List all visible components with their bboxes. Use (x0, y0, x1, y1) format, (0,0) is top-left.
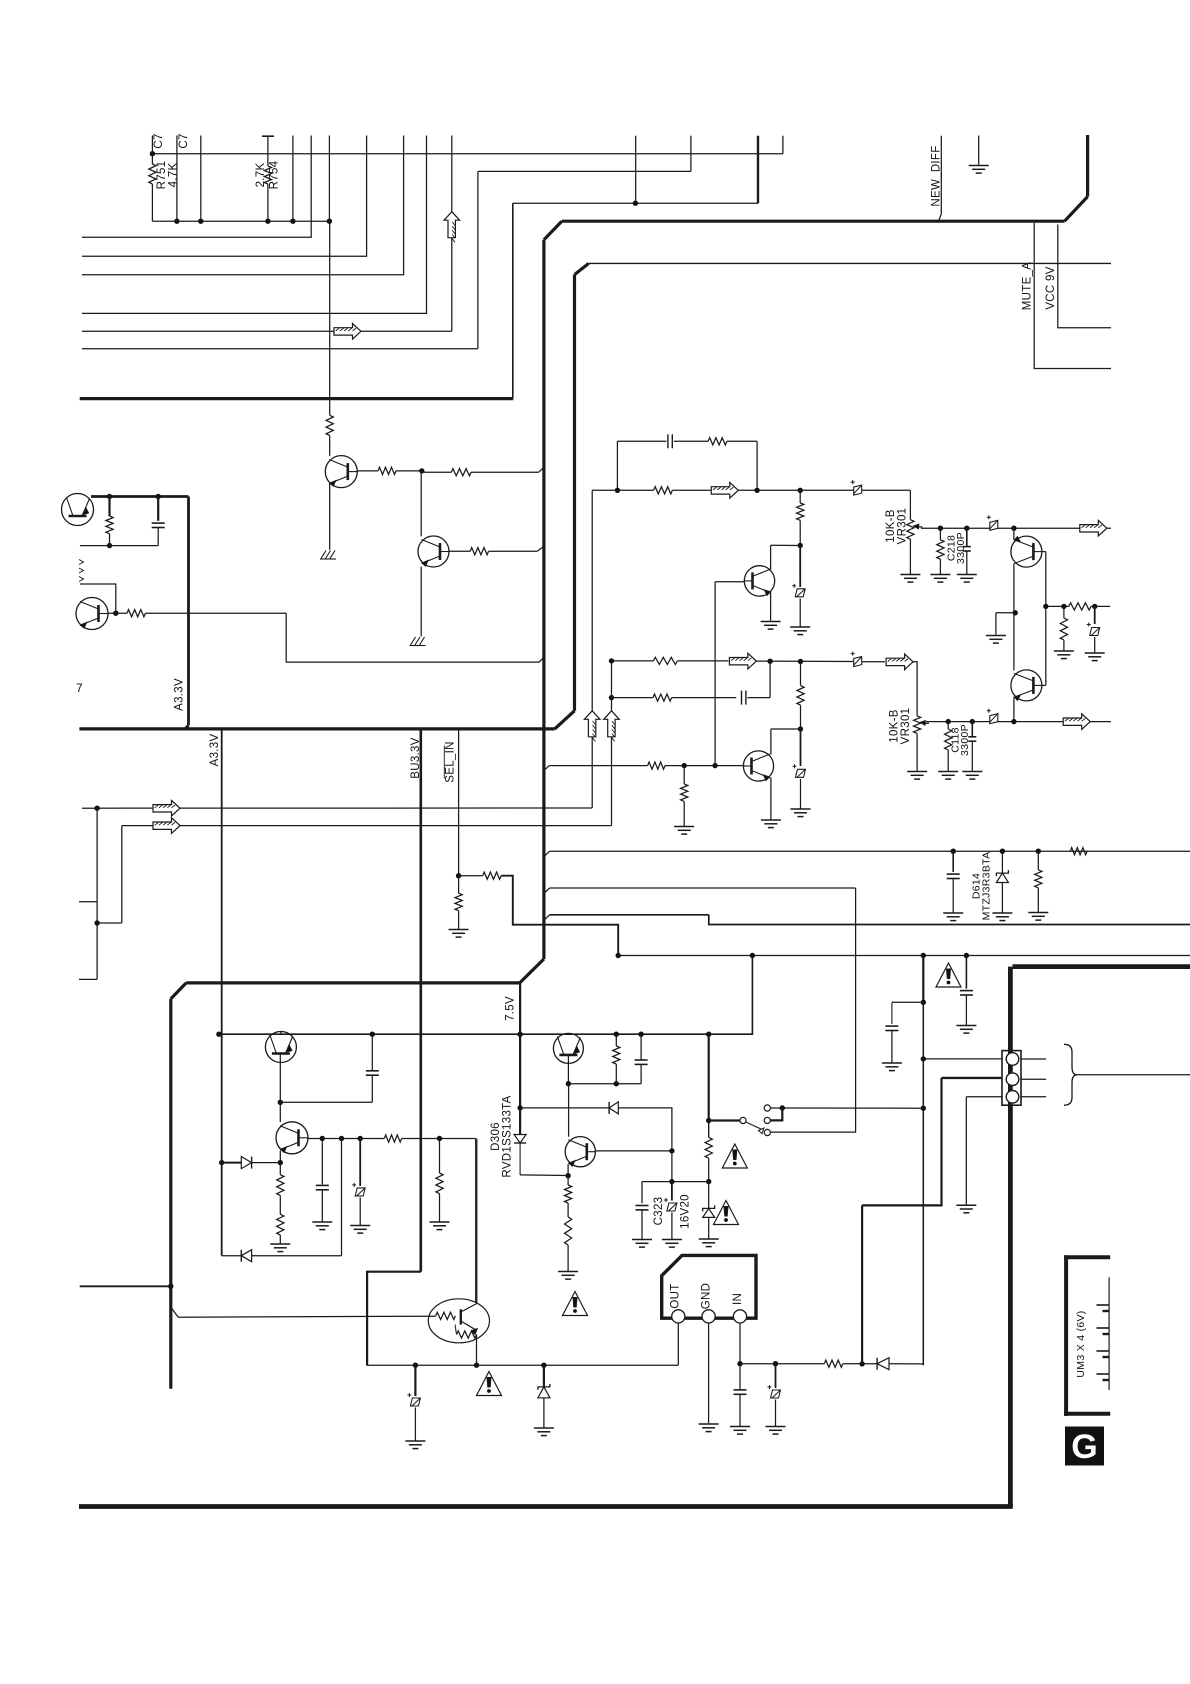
resistor Q2 base (470, 548, 488, 555)
regulator pin IN (733, 1310, 746, 1323)
svg-text:D306: D306 (490, 1122, 502, 1151)
A3.3V vertical continues (221, 1034, 223, 1256)
wire Q1 base y=470.9 (357, 470, 378, 472)
node dots bottom line (413, 1363, 418, 1368)
GND pin wire (708, 1323, 710, 1423)
node dot x=109.5 y=545.6 (107, 543, 112, 548)
output arrow upper right (1080, 520, 1107, 536)
node dots wiper lower (946, 719, 951, 724)
SEL_IN resistor to ground (458, 876, 460, 894)
wire y=1175.2 to Q6b emitter (520, 1174, 568, 1177)
resistor Q1 base (378, 467, 396, 474)
connector pin 3 (1006, 1091, 1019, 1104)
diode from A3.3V to emitter (219, 1160, 224, 1165)
wire from brace y=1074.8 (1077, 1074, 1190, 1076)
wire y=1286.3 stub (80, 1285, 171, 1287)
diode on IN line (876, 1358, 878, 1370)
thick vertical x=170.8 bottom left (169, 999, 172, 1389)
line y=825.6 (122, 825, 612, 827)
svg-text:R754: R754 (269, 160, 281, 189)
opto transistor bar (460, 1309, 462, 1324)
electrolytic x=415.4 (414, 1365, 416, 1396)
transistor driver upper (744, 566, 774, 596)
electrolytic to ground x=1094.7 (1094, 606, 1096, 624)
IN line y=1363.7 (740, 1363, 824, 1365)
wire y=1102.3 (280, 1101, 372, 1103)
select line y=955.5 (618, 955, 1190, 957)
capacitor 3300P leg upper (966, 528, 968, 546)
lower driver emitter to ground (770, 778, 772, 820)
resistor Q4 base (127, 610, 145, 617)
capacitor x=158.2 (157, 497, 159, 521)
switch pole wire (709, 1119, 740, 1121)
opto collector (461, 1304, 477, 1313)
resistor x=616.3 (615, 1034, 617, 1046)
svg-text:R751: R751 (156, 161, 168, 190)
svg-text:MTZJ3R3BTA: MTZJ3R3BTA (981, 852, 993, 921)
transistor Q4 partial (76, 598, 108, 630)
node dots on junction line (174, 219, 179, 224)
resistor on y=851.2 rail (1070, 848, 1087, 855)
warning triangle near 7.5V area (936, 963, 961, 987)
wire collector x=329.7 from junction (329, 221, 331, 415)
svg-text:16V20: 16V20 (680, 1194, 692, 1229)
left stub y=901.8 (79, 901, 97, 903)
transistor output pair lower (1011, 670, 1042, 701)
vertical x=752.4 to 7.5V rail corner (219, 956, 753, 1035)
series electrolytic upper (851, 480, 862, 495)
upper driver collector riser (770, 545, 772, 569)
Q5b emitter resistors (277, 1175, 284, 1196)
wiper line y=721.6 lower (926, 721, 1065, 723)
regulator pin OUT (672, 1310, 685, 1323)
svg-text:2.7K: 2.7K (255, 163, 267, 188)
opto emitter down (476, 1335, 478, 1366)
capacitor feedback lower (741, 691, 743, 705)
thick vertical A3.3V x=188.5 (187, 497, 190, 726)
capacitor top tick R754 (262, 135, 274, 137)
wire vertical x=758 thick (757, 136, 759, 204)
signal arrow y=808 (153, 800, 180, 816)
svg-text:G: G (1071, 1428, 1097, 1466)
vertical SEL_IN x=458.6 (458, 729, 460, 876)
off-page arrow up on x=451.8 (444, 212, 460, 238)
ground top right (978, 136, 980, 166)
transistor Q5b (276, 1122, 308, 1154)
signal arrow lower out to pot (886, 654, 913, 670)
regulator pin GND (702, 1310, 715, 1323)
wiper line y=528.2 upper (921, 527, 1082, 529)
ground VR301 lower (907, 771, 927, 773)
svg-text:3300P: 3300P (955, 532, 967, 564)
wire Q6a base down (567, 1055, 569, 1084)
electrolytic x=360.2 (359, 1139, 361, 1187)
wire y=729 collector link lower (771, 728, 801, 730)
svg-text:VR301: VR301 (900, 708, 912, 745)
thick vertical bus x=543.9 (542, 240, 545, 959)
resistor chain x=800.5 lower channel (800, 662, 802, 686)
capacitor x=966.4 (965, 956, 967, 989)
node dot SEL_IN (456, 873, 461, 878)
net NEW_DIFF wire (939, 136, 942, 222)
pin3 wire y=1096.8 (966, 1096, 1002, 1098)
OUT pin wire (677, 1323, 679, 1365)
svg-text:NEW_DIFF: NEW_DIFF (931, 145, 943, 206)
node dot x=611.5 y=697.6 link (609, 658, 614, 663)
pin1 wire y=1058.9 (923, 1058, 1002, 1060)
wire feedback right vertical x=757.1 (756, 441, 758, 490)
wire bus top horizontal y=153.7 (152, 153, 783, 155)
node dot x=97.1 (94, 806, 99, 811)
capacitor C218 leg (939, 528, 941, 540)
mid node y=612.8 (996, 612, 1015, 614)
svg-text:3300P: 3300P (959, 724, 971, 756)
Q6b emitter resistors (567, 1176, 569, 1185)
vertical x=341.5 up to base line (341, 1139, 343, 1256)
capacitor x=641.1 (640, 1034, 642, 1060)
wire down to VR301 upper (909, 490, 911, 519)
BU3.3V jog at bottom (367, 1272, 421, 1366)
wire y=203.2 horizontal (513, 202, 758, 204)
node dots lower line (767, 659, 772, 664)
brace to speaker (1064, 1044, 1077, 1105)
signal arrow y=825.6 (153, 818, 180, 834)
opto coupler body (428, 1299, 489, 1343)
resistor R754 2.7K (267, 136, 269, 166)
thick bus y=728.9 (79, 727, 554, 730)
resistor x=439.5 (439, 1139, 441, 1174)
upper channel main line y=490.3 (592, 489, 653, 491)
Q5b emitter down (279, 1151, 281, 1163)
wire y=263.4 to x=1111 (589, 262, 1111, 264)
svg-text:RVD1SS133TA: RVD1SS133TA (502, 1095, 514, 1177)
pin2 thick wire y=1077.9 (942, 1077, 1003, 1079)
tap y=888 switch line (544, 888, 550, 894)
bottom junction line y=1365.2 (367, 1364, 679, 1366)
continuation dots left edge (79, 560, 84, 565)
pin leads right (1021, 1058, 1046, 1060)
svg-text:UM3 X 4 (6V): UM3 X 4 (6V) (1075, 1310, 1087, 1377)
wire vertical x=426.5 bend left y=313.4 (82, 136, 427, 314)
node dot feedback lower start (609, 695, 614, 700)
ground Q1 emitter (321, 551, 326, 559)
wire feedback left vertical x=617.4 (616, 441, 618, 490)
diode on y=1107.9 (608, 1102, 610, 1114)
Q6b base wire (596, 1150, 672, 1152)
warning triangle below Q6b (563, 1292, 588, 1316)
wire vertical x=329.4 top (328, 136, 330, 222)
signal arrow lower mid (729, 653, 756, 669)
vertical link x=715.1 between driver bases (714, 582, 716, 766)
transistor Q0 partial at left edge (62, 494, 94, 526)
zener 16V20 (708, 1182, 710, 1209)
zener x=543.9 (543, 1365, 545, 1387)
wire Q2 base y=551.2 (449, 550, 470, 552)
svg-text:SEL_IN: SEL_IN (445, 741, 457, 782)
potentiometer VR301 lower (914, 716, 921, 734)
svg-text:BU3.3V: BU3.3V (410, 737, 422, 778)
node dots upper line (615, 488, 620, 493)
Q6b emitter (567, 1164, 569, 1176)
resistor on IN line (824, 1360, 843, 1367)
resistor x=1038.3 (1037, 851, 1039, 870)
vertical x=592.2 with up arrow (591, 490, 593, 711)
signal arrow upper (711, 483, 738, 499)
opto emitter with arrow (461, 1321, 477, 1331)
switch blade with arrow (746, 1122, 763, 1130)
resistor upper input (654, 487, 673, 494)
electrolytic x=800.2 upper (799, 546, 801, 588)
thick vertical bus x=1087.6 (1086, 135, 1089, 197)
resistor from y=496.5 (108, 497, 110, 517)
warning triangle near zener (714, 1201, 739, 1225)
output junction line y=606.4 (1046, 605, 1069, 607)
wire to thick bus with bevel (471, 471, 539, 473)
thick line y=496.5 (91, 495, 189, 498)
warning triangle bottom (477, 1372, 502, 1396)
sheet label G (1065, 1427, 1104, 1466)
wire vertical x=451.8 bend left y=331.3 with up arrow (451, 136, 453, 212)
wire emitter upper pair (1013, 528, 1015, 539)
wire corner x=286.2 down to y=662.1 (286, 613, 544, 662)
wire emitter lower pair (1013, 697, 1015, 721)
left stub y=979.4 (79, 978, 97, 980)
wire collector lower pair (1013, 613, 1015, 671)
wire Q5a base down (279, 1054, 281, 1103)
switch pole contact (740, 1117, 746, 1123)
upper driver emitter to ground (770, 593, 772, 621)
transistor Q5a (265, 1032, 296, 1063)
node dot x=635.7 on y=203.2 (633, 201, 638, 206)
svg-text:OUT: OUT (669, 1283, 681, 1308)
wire y=171.4 horizontal (478, 170, 691, 172)
net MUTE_A wire (1034, 223, 1111, 369)
node dots y=851.2 D614 rail (951, 849, 956, 854)
resistor output divider (1069, 603, 1091, 610)
wire vertical x=690.9 stub (690, 136, 692, 172)
net VCC 9V wire (1058, 225, 1111, 328)
upper driver base wire y=581.7 (715, 581, 744, 583)
wire vertical x=366.6 bend left y=256.3 (82, 136, 367, 257)
resistor Q5b base line (384, 1135, 401, 1142)
feedback lower line y=697.6 (612, 697, 654, 699)
capacitor 3300P lower leg (971, 722, 973, 737)
bottom diode loop y=1255.7 (222, 1255, 242, 1257)
cap line y=1002.3 (892, 1001, 923, 1003)
wire y=1083.7 (568, 1083, 641, 1085)
svg-text:C323: C323 (653, 1197, 665, 1226)
vertical x=708.7 zener chain (708, 1034, 710, 1120)
wiper arrow VR301 lower (924, 722, 929, 724)
node dots on 7.5V rail y=1034.2 (216, 1032, 221, 1037)
node dot x=421.8 (419, 468, 424, 473)
lower driver collector riser (770, 729, 772, 755)
node dots driver base line (682, 763, 687, 768)
jog middle contact (770, 1108, 782, 1120)
taps off thick bus x=543.9 : y=851.2 (544, 851, 550, 857)
wiper arrow VR301 upper (918, 526, 923, 528)
svg-text:10K-B: 10K-B (889, 709, 901, 742)
svg-text:A3.3V: A3.3V (174, 678, 186, 711)
feedback top line y=441.3 upper channel (617, 440, 666, 442)
opto internal resistor (436, 1312, 456, 1319)
capacitor x=740 (739, 1364, 741, 1390)
wire vertical x=176.9 (176, 136, 178, 222)
node dot R751 top (150, 151, 155, 156)
wire to opto collector x=475.7 (475, 1139, 477, 1303)
node dots y=496.5 (107, 494, 112, 499)
series electrolytic lower (851, 652, 862, 667)
opto internal resistor 2 (457, 1331, 477, 1338)
pin2 drop jog (862, 1078, 941, 1206)
capacitor x=372.3 (371, 1034, 373, 1070)
ground VR301 upper (900, 574, 920, 576)
base tie vertical x=1045.8 (1042, 551, 1046, 553)
capacitor x=322.3 (321, 1139, 323, 1185)
zener diode D614 (1001, 851, 1003, 872)
vertical x=923.3 long (922, 1002, 924, 1365)
battery cells UM3 x 4 (1108, 1277, 1110, 1305)
transistor output pair upper (1011, 536, 1042, 567)
electrolytic C323 x=671.9 (671, 1182, 673, 1201)
capacitor x=891.9 (891, 1002, 893, 1024)
Q5b base line y=1138.5 (309, 1138, 385, 1140)
tap y=914.8 with jog (544, 915, 550, 921)
svg-text:GND: GND (701, 1283, 713, 1309)
transistor driver lower (743, 751, 773, 781)
electrolytic x=800.5 lower (800, 729, 802, 766)
wire from upper contact y=1108 (770, 1107, 923, 1109)
resistor to ground x=684.2 (683, 766, 685, 784)
wire Q5b collector (279, 1102, 281, 1122)
junction line y=221.2 thin (152, 220, 329, 222)
switch contact upper (764, 1105, 770, 1111)
thick vertical BU3.3V x=420.8 (419, 729, 422, 1272)
switch contact lower (764, 1129, 770, 1135)
svg-text:C7: C7 (153, 133, 165, 148)
resistor C118 leg (947, 722, 949, 729)
wire vertical x=200.8 (200, 136, 202, 222)
switch line vertical x=855.6 (770, 888, 855, 1132)
transistor Q6a (553, 1033, 583, 1063)
node dots wiper upper (938, 526, 943, 531)
node dot Q4 base (113, 611, 118, 616)
wire vertical x=635.7 (635, 136, 637, 204)
stub x=923.3 down to cap line (922, 956, 924, 1003)
line y=808 to left edge (82, 807, 592, 809)
IN pin wire (739, 1323, 741, 1364)
wire collector upper pair down (1013, 564, 1015, 613)
warning triangle right of resistor (722, 1144, 747, 1168)
wire Q1 emitter to ground (329, 484, 331, 550)
resistor chain x=800.2 upper channel (799, 490, 801, 503)
wire Q2 emitter (420, 567, 422, 637)
wire y=584 L (80, 584, 116, 613)
left vertical x=121.8 (121, 826, 123, 923)
wire Q6b collector x=568.6 (568, 1084, 570, 1137)
transistor Q1 (325, 456, 357, 488)
ground Q2 emitter (411, 637, 416, 645)
wire y=545.6 (80, 545, 158, 547)
lower channel main line y=661.8 (612, 660, 654, 662)
resistor to ground x=1063.9 (1063, 606, 1065, 618)
series electrolytic on wiper lower (987, 709, 998, 724)
vertical x=671.9 continues (671, 1151, 673, 1182)
resistor feedback upper (708, 438, 727, 445)
resistor second y=472.2 (451, 469, 471, 476)
vertical 7.5V drop x=520.1 (519, 983, 521, 1132)
thick bus y=221.2 with bevels (562, 220, 1065, 223)
wire Q2 collector x=421.2 (420, 471, 422, 537)
svg-text:7.5V: 7.5V (505, 996, 517, 1021)
node dots y=955.5 (616, 953, 621, 958)
resistor R751 (151, 154, 153, 164)
ground mid node (995, 613, 997, 635)
SEL_IN tap line to switch select (459, 875, 483, 877)
capacitor feedback upper (667, 434, 669, 448)
wire vertical x=512.8 mid (512, 203, 514, 398)
D306 branch line y=1107.9 (517, 1105, 522, 1110)
electrolytic x=775.5 (775, 1364, 777, 1388)
battery holder bracket (1064, 1255, 1068, 1416)
potentiometer VR301 upper (907, 520, 914, 540)
jog y=923 (97, 922, 122, 924)
vertical A3.3V second x=221.7 (221, 729, 223, 1034)
bottom thick border (79, 1504, 1013, 1509)
thick border horizontal y=966.6 (1013, 964, 1190, 969)
svg-text:VCC 9V: VCC 9V (1045, 266, 1057, 309)
svg-text:A3.3V: A3.3V (209, 734, 221, 767)
connector CN housing (1002, 1051, 1021, 1106)
pin3 ground drop (965, 1097, 967, 1205)
thick vertical bus x=574.5 with bevels (573, 275, 576, 711)
svg-text:C7: C7 (178, 133, 190, 148)
svg-text:IN: IN (732, 1293, 744, 1305)
diode D306 (519, 1132, 521, 1135)
thick vertical x=862.1 (861, 1205, 863, 1365)
svg-text:10K-B: 10K-B (885, 509, 897, 542)
wire y=348.7 to left edge (82, 348, 478, 350)
resistor above Q1 (326, 415, 333, 435)
connector pin 2 (1006, 1073, 1019, 1086)
line y=1181.6 caps row (642, 1181, 709, 1183)
wire y=545.5 collector link upper (771, 544, 801, 546)
off-page arrow right on y=331.3 (334, 324, 361, 340)
wire jog to opto line (171, 1307, 178, 1317)
thick border vertical x=1010.4 (1008, 967, 1013, 1507)
wire vertical x=403.6 bend left y=274.8 (82, 136, 404, 275)
svg-text:MUTE_A: MUTE_A (1022, 262, 1034, 310)
left edge vertical x=97.1 (96, 808, 98, 979)
capacitor x=642 (641, 1182, 643, 1204)
output arrow lower right (1063, 714, 1090, 730)
wire vertical x=311.2 bend left y=237.2 (82, 136, 311, 238)
resistor lower input (653, 657, 677, 664)
regulator IC body (662, 1255, 756, 1318)
thick 7.5V bus y=982.9 (186, 981, 520, 984)
transistor Q2 (418, 536, 449, 567)
opto input line y=1317.2 (178, 1316, 436, 1317)
thick bus y=398.6 (80, 397, 514, 400)
svg-text:7: 7 (76, 681, 83, 695)
driver base line y=765.6 (544, 766, 549, 771)
connector pin 1 (1006, 1053, 1019, 1066)
wire vertical x=477.9 y=171.4 to 348.7 (477, 171, 479, 348)
vertical x=611.5 with up arrow (611, 661, 613, 711)
wire vertical x=782.9 stub (782, 136, 784, 154)
capacitor x=953.2 (952, 851, 954, 872)
switch contact middle (764, 1117, 770, 1123)
